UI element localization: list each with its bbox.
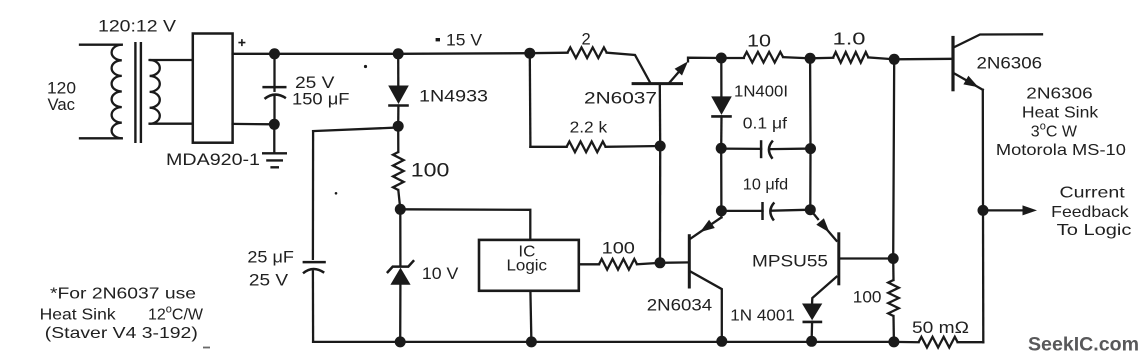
zener D3 10V [387, 260, 414, 273]
svg-text:25 μF: 25 μF [247, 249, 294, 267]
wire node to left column [313, 128, 398, 132]
svg-text:100: 100 [853, 288, 882, 307]
svg-text:Vac: Vac [48, 95, 76, 114]
resistor R8 10 [744, 52, 783, 63]
svg-text:MDA920-1: MDA920-1 [166, 151, 260, 169]
ground [262, 153, 287, 167]
svg-text:SeekIC.com: SeekIC.com [1028, 335, 1139, 356]
bottom rail [313, 341, 894, 343]
svg-text:1N 4001: 1N 4001 [730, 308, 795, 325]
svg-text:10 V: 10 V [422, 265, 459, 283]
wire C3 to node [771, 147, 811, 150]
transformer T1 primary lead bottom [80, 137, 122, 139]
wire Q2 emitter up [720, 211, 722, 218]
svg-text:2N6306: 2N6306 [977, 55, 1043, 73]
svg-text:(Staver V4 3-192): (Staver V4 3-192) [45, 325, 198, 342]
transformer T1 primary winding [112, 45, 122, 139]
svg-text:2N6306: 2N6306 [1026, 86, 1093, 103]
wire zener top [399, 209, 401, 266]
wire R4 to base node [637, 263, 660, 265]
wire R6 bottom [892, 316, 895, 342]
wire D4 node down [720, 148, 723, 211]
svg-text:12oC/W: 12oC/W [148, 304, 204, 324]
svg-text:1N400I: 1N400I [734, 84, 788, 101]
svg-text:25 V: 25 V [295, 74, 335, 92]
svg-text:2N6034: 2N6034 [647, 297, 712, 315]
node bottom IC [526, 336, 537, 347]
transistor Q3 collector [812, 277, 836, 304]
svg-text:120:12 V: 120:12 V [98, 17, 177, 36]
transformer T1 primary lead top [80, 44, 122, 46]
svg-text:2N6037: 2N6037 [584, 90, 657, 108]
wire right column down [982, 210, 985, 342]
wire zener node to IC [400, 209, 530, 240]
wire Q2 base [660, 261, 689, 264]
wire D1 cathode [397, 106, 399, 127]
svg-text:15 V: 15 V [446, 32, 482, 50]
node rail mid [805, 53, 816, 64]
node top rail at C1 [269, 48, 280, 59]
node bottom Q2 collector [716, 336, 727, 347]
wire rail to R 10 [721, 57, 744, 59]
svg-text:150 μF: 150 μF [292, 91, 350, 109]
wire +15 branch down [529, 53, 532, 147]
node 2.2k junction [655, 141, 666, 152]
transistor Q4 collector [954, 34, 1043, 47]
node bottom R6 [888, 336, 899, 347]
svg-text:50 mΩ: 50 mΩ [912, 318, 969, 337]
transistor Q3 emitter [810, 210, 818, 219]
wire top rail C1 to D1 [275, 53, 399, 55]
wire Q1 emitter to rail [688, 58, 721, 62]
wire R1 to Q1 [607, 53, 650, 82]
speck [335, 192, 338, 195]
wire zener bottom [399, 285, 401, 342]
svg-text:Motorola MS-10: Motorola MS-10 [996, 142, 1126, 159]
wire D4 cathode [720, 116, 723, 148]
node rail D4 [716, 53, 727, 64]
node rail right [889, 54, 900, 65]
svg-text:3oC W: 3oC W [1031, 121, 1078, 141]
wire base column down [659, 146, 662, 263]
svg-text:Heat Sink: Heat Sink [1022, 105, 1099, 122]
speck [203, 347, 210, 349]
wire to ground [273, 124, 275, 152]
resistor R9 1.0 [833, 52, 868, 63]
wire Q1 base down [659, 84, 662, 146]
svg-text:2.2 k: 2.2 k [570, 119, 608, 136]
wire D4 anode [720, 58, 722, 96]
svg-text:10: 10 [747, 31, 771, 51]
transistor Q1 emitter [670, 65, 685, 83]
node zener top [395, 204, 406, 215]
transistor Q2 collector [691, 272, 722, 342]
wire D1 anode [397, 54, 399, 86]
wire to R6 [892, 259, 895, 281]
wire Q3 base [839, 257, 893, 259]
wire R9 to node [868, 57, 894, 59]
plus polarity mark [238, 39, 245, 46]
wire IC bottom [530, 291, 531, 342]
capacitor C2 25uF [303, 261, 326, 264]
wire C4 to node [772, 210, 810, 211]
transistor Q4 2N6306 base bar [951, 36, 954, 91]
wire top rail D1 to node15V [398, 52, 530, 55]
resistor R1 2 [568, 47, 607, 58]
svg-text:0.1 μf: 0.1 μf [743, 116, 788, 133]
transformer T1 secondary winding [150, 60, 160, 124]
svg-text:25 V: 25 V [249, 272, 288, 290]
wire left column bottom [312, 271, 315, 342]
wire rectifier top output [233, 53, 275, 55]
node bottom zener [395, 336, 406, 347]
wire D5 cathode [810, 322, 813, 341]
diode D1 1N4933 [388, 86, 409, 105]
wire to C4 [721, 210, 762, 212]
bridge rectifier MDA920-1 [193, 34, 233, 143]
node Q2 base junction [655, 257, 666, 268]
wire bottom rail right [894, 341, 919, 344]
capacitor C1 25V 150uF [262, 86, 286, 89]
resistor R5 2.2k [567, 142, 606, 153]
wire rail to Q4 base [894, 58, 953, 61]
node feedback [978, 205, 989, 216]
wire rail down long [893, 59, 894, 258]
wire top rail to R2 [530, 52, 568, 55]
svg-text:2: 2 [582, 30, 591, 48]
node D1 bottom [393, 121, 404, 132]
wire secondary bottom to rectifier [150, 123, 193, 125]
svg-text:Feedback: Feedback [1051, 204, 1130, 221]
resistor R7 50 mohm [919, 337, 958, 348]
transistor Q3 MPSU55 base bar [837, 232, 840, 285]
wire rail to R 1.0 [810, 57, 833, 60]
node C3 right [805, 143, 816, 154]
wire to R5 [530, 146, 566, 148]
svg-text:Logic: Logic [507, 258, 548, 275]
node C1 bottom [269, 119, 280, 130]
diode D5 1N4001 [802, 304, 822, 321]
svg-text:*For 2N6037 use: *For 2N6037 use [50, 286, 196, 303]
node top rail at D1 [393, 48, 404, 59]
wire R3 bottom [398, 190, 400, 209]
node 10uf right [805, 204, 816, 215]
resistor R3 100 [393, 152, 404, 190]
resistor R4 100 [599, 259, 637, 270]
wire mid column [809, 58, 812, 209]
wire C1 top [273, 54, 275, 91]
wire IC right to R4 [579, 263, 599, 265]
transistor Q1 2N6037 base bar [632, 82, 683, 85]
wire C1 bottom [273, 97, 275, 125]
svg-text:100: 100 [411, 161, 450, 182]
node 10uf left [716, 205, 727, 216]
transistor Q2 2N6034 base bar [688, 234, 691, 288]
node top rail +15V branch [524, 48, 535, 59]
wire Q4 emitter down [982, 90, 985, 211]
transistor Q2 emitter [710, 217, 721, 225]
wire R5 to junction [606, 145, 661, 148]
svg-text:1N4933: 1N4933 [419, 88, 488, 106]
svg-text:1.0: 1.0 [833, 29, 866, 49]
diode D4 1N4001 [711, 96, 732, 115]
capacitor C3 0.1uf [760, 140, 763, 158]
wire rectifier bottom output [233, 123, 275, 126]
wire secondary top to rectifier [150, 59, 193, 61]
label +15 V [436, 38, 440, 41]
capacitor C4 10ufd [761, 202, 764, 220]
svg-text:100: 100 [602, 240, 635, 258]
wire to C3 [721, 147, 761, 150]
resistor R6 100 [888, 280, 899, 316]
svg-text:Current: Current [1060, 185, 1126, 202]
svg-text:10 μfd: 10 μfd [743, 177, 788, 194]
transformer T1 core [134, 42, 136, 143]
svg-text:Heat Sink: Heat Sink [40, 307, 117, 324]
IC Logic box U1 [479, 240, 579, 291]
svg-text:MPSU55: MPSU55 [752, 253, 828, 271]
transistor Q4 emitter [954, 73, 968, 81]
node D4 bottom [716, 143, 727, 154]
wire feedback arrow [983, 209, 1026, 211]
svg-text:To Logic: To Logic [1057, 222, 1132, 239]
node Q3 base [888, 253, 899, 264]
wire R8 to node [783, 57, 810, 58]
node bottom D5 [806, 336, 817, 347]
wire left column top [312, 131, 315, 259]
speck [364, 65, 367, 68]
wire R3 top [397, 126, 399, 152]
